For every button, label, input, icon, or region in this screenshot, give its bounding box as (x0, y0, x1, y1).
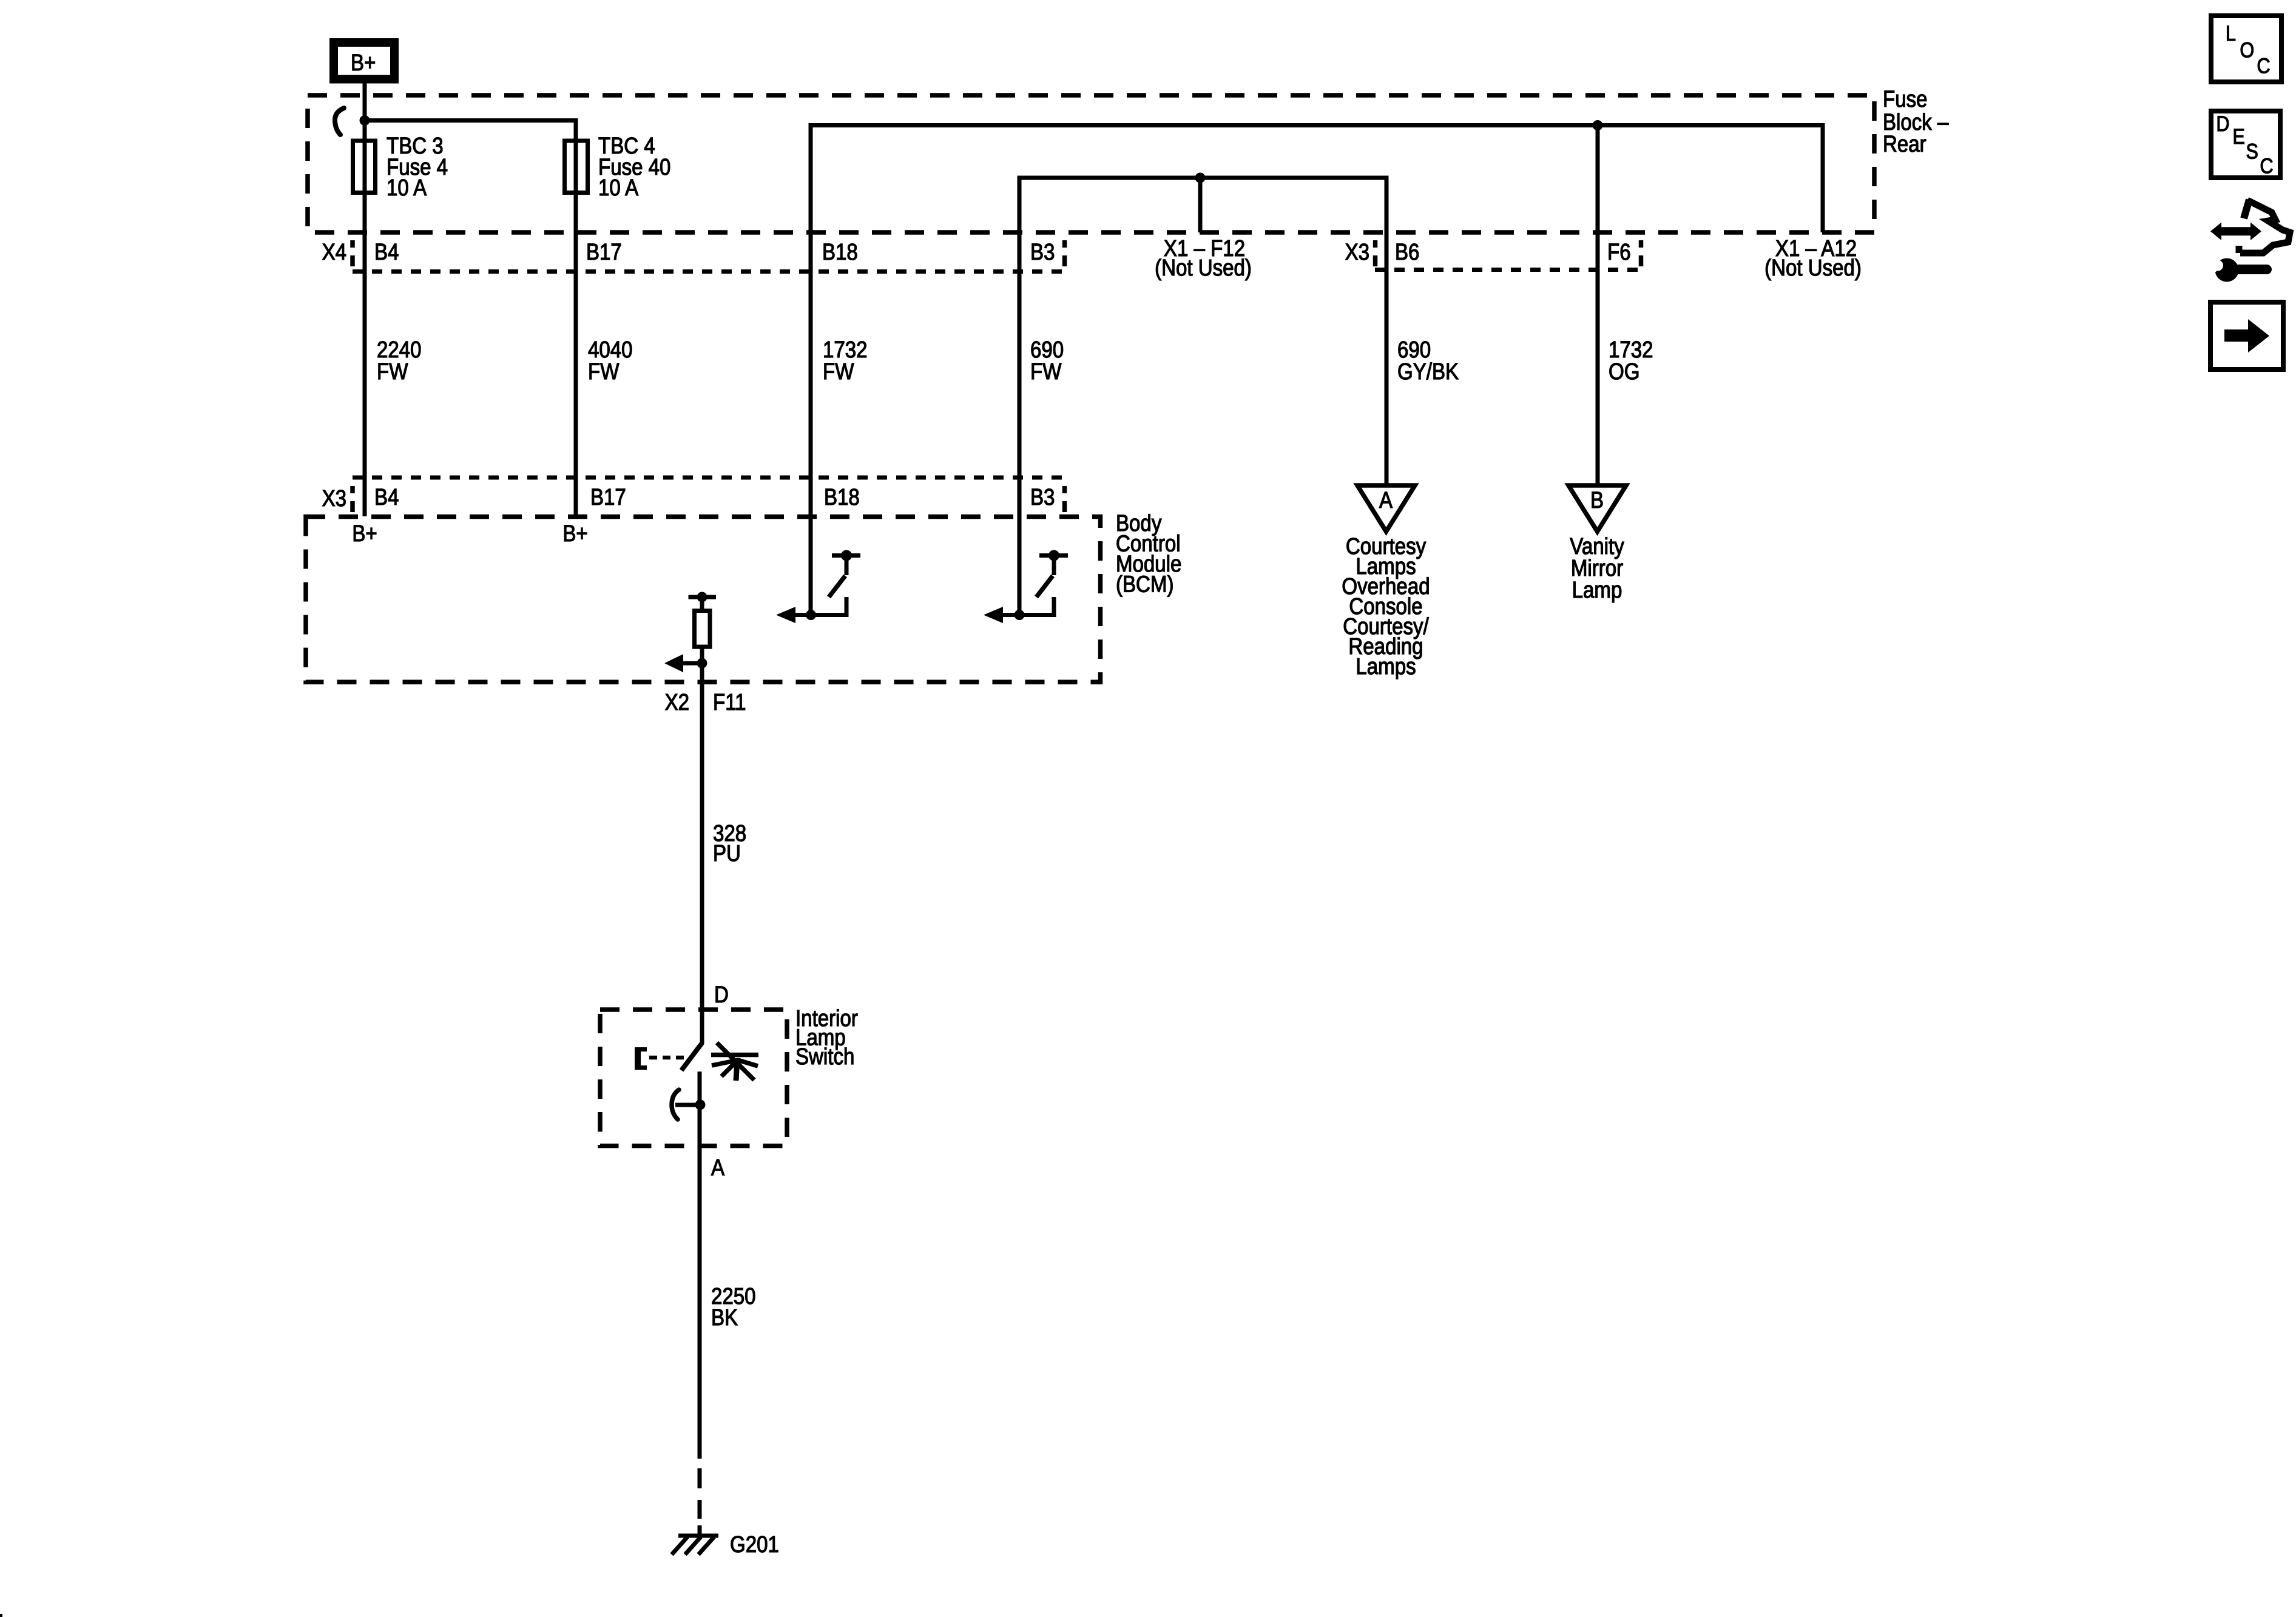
power node B+ (334, 42, 394, 79)
svg-text:Switch: Switch (795, 1044, 854, 1070)
svg-text:C: C (2257, 53, 2271, 77)
svg-text:FW: FW (377, 359, 408, 385)
svg-text:B+: B+ (352, 521, 377, 547)
icon LOC box (2211, 16, 2281, 82)
BCM internal switch at B18 (776, 550, 860, 624)
svg-text:G201: G201 (730, 1531, 779, 1558)
svg-text:BK: BK (711, 1305, 738, 1331)
svg-text:PU: PU (713, 840, 741, 866)
courtesy lamps label (1342, 533, 1430, 680)
svg-text:X2: X2 (665, 689, 689, 715)
svg-text:FW: FW (1030, 359, 1062, 385)
fuse TBC4 label (598, 133, 670, 201)
connector X3 dotted line (1375, 268, 1641, 272)
BCM connector X3 bracket left (350, 486, 355, 493)
svg-text:B+: B+ (351, 50, 376, 76)
svg-text:(Not Used): (Not Used) (1155, 255, 1252, 281)
wire B17 column through TBC4 fuse down to BCM (574, 138, 578, 516)
wire B18 column and bus B to X1-A12 (811, 126, 1823, 615)
svg-text:F6: F6 (1607, 239, 1631, 265)
svg-text:X3: X3 (1345, 239, 1369, 265)
interior lamp switch label (795, 1005, 858, 1070)
stub wire X1-F12 (1198, 178, 1203, 232)
svg-text:Rear: Rear (1883, 131, 1926, 157)
svg-text:X4: X4 (322, 239, 346, 265)
bracket right of B3 (1062, 240, 1067, 248)
svg-text:GY/BK: GY/BK (1397, 359, 1459, 385)
fuse block - rear dashed box (308, 95, 1874, 232)
BCM bracket right of B3 (1062, 486, 1067, 493)
BCM connector X3 dotted line (353, 476, 1065, 480)
fuse block label (1883, 86, 1949, 157)
bus tap curve (335, 108, 344, 135)
svg-text:(BCM): (BCM) (1116, 571, 1173, 597)
svg-text:OG: OG (1609, 359, 1639, 385)
svg-text:FW: FW (823, 359, 854, 385)
svg-text:A: A (1379, 487, 1393, 513)
svg-text:C: C (2260, 154, 2274, 177)
wire B3 column and bus C to B6 (1019, 178, 1386, 615)
svg-text:O: O (2240, 38, 2255, 61)
connector triangle B vanity mirror lamp (1568, 485, 1626, 532)
vanity mirror lamp label (1570, 533, 1624, 603)
junction dot at switch output (695, 1099, 706, 1110)
fuse TBC3 (353, 141, 376, 193)
svg-text:B17: B17 (590, 484, 626, 510)
hook tick to wire (675, 1103, 698, 1107)
junction dot bus C at X1-F12 (1195, 173, 1206, 183)
svg-text:B: B (1590, 487, 1604, 513)
connector X4 bracket (350, 240, 355, 248)
svg-text:A: A (711, 1155, 724, 1181)
interior lamp switch box (600, 1010, 787, 1146)
svg-text:Fuse: Fuse (1883, 86, 1927, 112)
svg-text:B4: B4 (374, 239, 399, 265)
svg-text:B18: B18 (824, 484, 860, 510)
switch blade (681, 1043, 702, 1070)
connector X3 bracket left (1373, 240, 1378, 248)
svg-text:(Not Used): (Not Used) (1764, 255, 1862, 281)
lamp off symbol (711, 1043, 758, 1081)
switch lower contact hook (672, 1090, 679, 1119)
svg-text:E: E (2233, 124, 2245, 148)
svg-text:10 A: 10 A (598, 175, 638, 201)
svg-text:Lamp: Lamp (1572, 577, 1622, 603)
BCM internal resistor to F11 (664, 592, 716, 673)
BCM internal switch at B3 (984, 550, 1068, 624)
svg-text:B3: B3 (1030, 484, 1055, 510)
svg-text:X3: X3 (322, 485, 346, 511)
svg-text:D: D (714, 982, 729, 1008)
svg-text:FW: FW (588, 359, 620, 385)
svg-text:B3: B3 (1030, 239, 1055, 265)
svg-text:Lamps: Lamps (1356, 653, 1416, 680)
bus A wire to TBC4 (365, 121, 576, 139)
svg-text:10 A: 10 A (387, 175, 427, 201)
icon DESC box (2211, 111, 2280, 178)
BCM label (1116, 510, 1181, 597)
junction dot at B+ bus (360, 115, 370, 126)
connector X3 bracket right (1639, 240, 1644, 248)
icon harness routing hand with double arrow and wrench (2210, 200, 2290, 282)
wire switch output down (698, 1072, 702, 1459)
fuse TBC3 label (387, 133, 448, 201)
svg-text:B18: B18 (822, 239, 858, 265)
svg-text:D: D (2217, 112, 2230, 135)
connector X4 dotted line (353, 269, 1065, 274)
svg-text:S: S (2246, 139, 2258, 163)
svg-text:B+: B+ (562, 521, 587, 547)
icon forward arrow box (2210, 302, 2283, 370)
wire F6 column down to vanity lamp (1596, 126, 1600, 486)
connector triangle A courtesy lamps (1357, 485, 1415, 532)
wire F11 down to interior lamp switch (700, 663, 704, 1044)
ground G201 (672, 1536, 718, 1555)
body control module box (306, 517, 1101, 683)
svg-text:B17: B17 (586, 239, 622, 265)
page corner dot (0, 1614, 2, 1617)
fuse TBC4 (565, 141, 588, 193)
svg-text:B6: B6 (1395, 239, 1419, 265)
mechanical link E (636, 1047, 687, 1070)
svg-text:L: L (2226, 21, 2236, 45)
junction dot bus B at F6 (1593, 120, 1603, 130)
dashed wire to ground (698, 1468, 702, 1536)
svg-text:F11: F11 (713, 689, 746, 715)
svg-text:B4: B4 (374, 484, 399, 510)
wire B+ down through TBC3 fuse to connector (363, 83, 367, 516)
